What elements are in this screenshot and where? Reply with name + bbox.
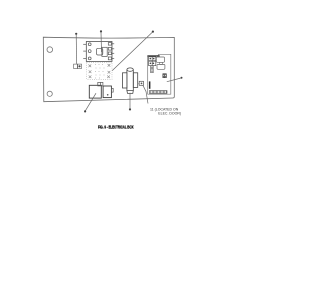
relay K1 right terminal 2 [108, 48, 114, 51]
electrical box enclosure outline [43, 37, 174, 102]
component S1 small square with dot [139, 81, 143, 85]
relay K1 inner armature [97, 47, 108, 56]
relay K1 left pin 1 [83, 43, 91, 46]
mounting hole bottom-left [47, 91, 52, 96]
callout leader 2 dot [100, 30, 102, 32]
transformer T1 left bobbin [89, 85, 101, 98]
door relay RL1 link [160, 62, 163, 64]
callout leader 1 line [75, 35, 77, 64]
svg-text:FIG. 9 - ELECTRICAL BOX: FIG. 9 - ELECTRICAL BOX [98, 124, 134, 129]
door indicator BB block [163, 74, 166, 78]
terminal strip screw X marks [89, 64, 111, 78]
callout leader 1 dot [75, 33, 77, 35]
callout leader 3 line [112, 32, 152, 70]
door relay RL1 upper cover [156, 57, 164, 62]
relay K1 left pin 3 [83, 57, 91, 60]
callout leader 2 line [100, 33, 103, 53]
elec door top dark edge [147, 55, 159, 56]
door relay RL1 lower cover [157, 64, 165, 69]
relay K1 right terminal 3 [108, 52, 114, 55]
door bottom hatched strip [149, 91, 167, 94]
capacitor C1 can [127, 68, 133, 94]
mounting hole top-left [47, 47, 53, 53]
relay K1 body [86, 42, 112, 62]
callout leader 5 dot [129, 108, 131, 110]
relay K1 left pin 2 [83, 50, 91, 53]
capacitor C1 clamp left plate [123, 73, 127, 88]
terminal strip dotted area [87, 62, 112, 79]
callout leader 6 line [167, 78, 181, 82]
callout leader 6 dot [181, 77, 183, 79]
transformer T1 right bobbin [103, 86, 111, 98]
capacitor C1 clamp right plate [133, 73, 137, 88]
callout leader 5 line [129, 93, 131, 109]
fuse holder F1 [74, 64, 82, 68]
callout leader 4 line [86, 93, 97, 110]
door hinge dark mark [149, 81, 151, 88]
callout leader 7 line to label 11 [143, 85, 148, 103]
transformer T1 side lug [111, 88, 113, 92]
callout leader 3 dot [152, 31, 154, 33]
relay K1 right terminal 1 [108, 43, 114, 46]
elec door outline [148, 54, 171, 94]
door ladder strip [151, 66, 154, 73]
terminal strip inner dots [95, 64, 105, 79]
svg-text:ELEC. DOOR): ELEC. DOOR) [158, 112, 181, 116]
callout leader 4 dot [84, 110, 86, 112]
relay K1 right terminal 4 [108, 57, 114, 60]
transformer T1 center tab [98, 82, 103, 86]
door terminal block TB1 lower [149, 61, 156, 65]
door terminal block TB1 upper [149, 57, 156, 61]
